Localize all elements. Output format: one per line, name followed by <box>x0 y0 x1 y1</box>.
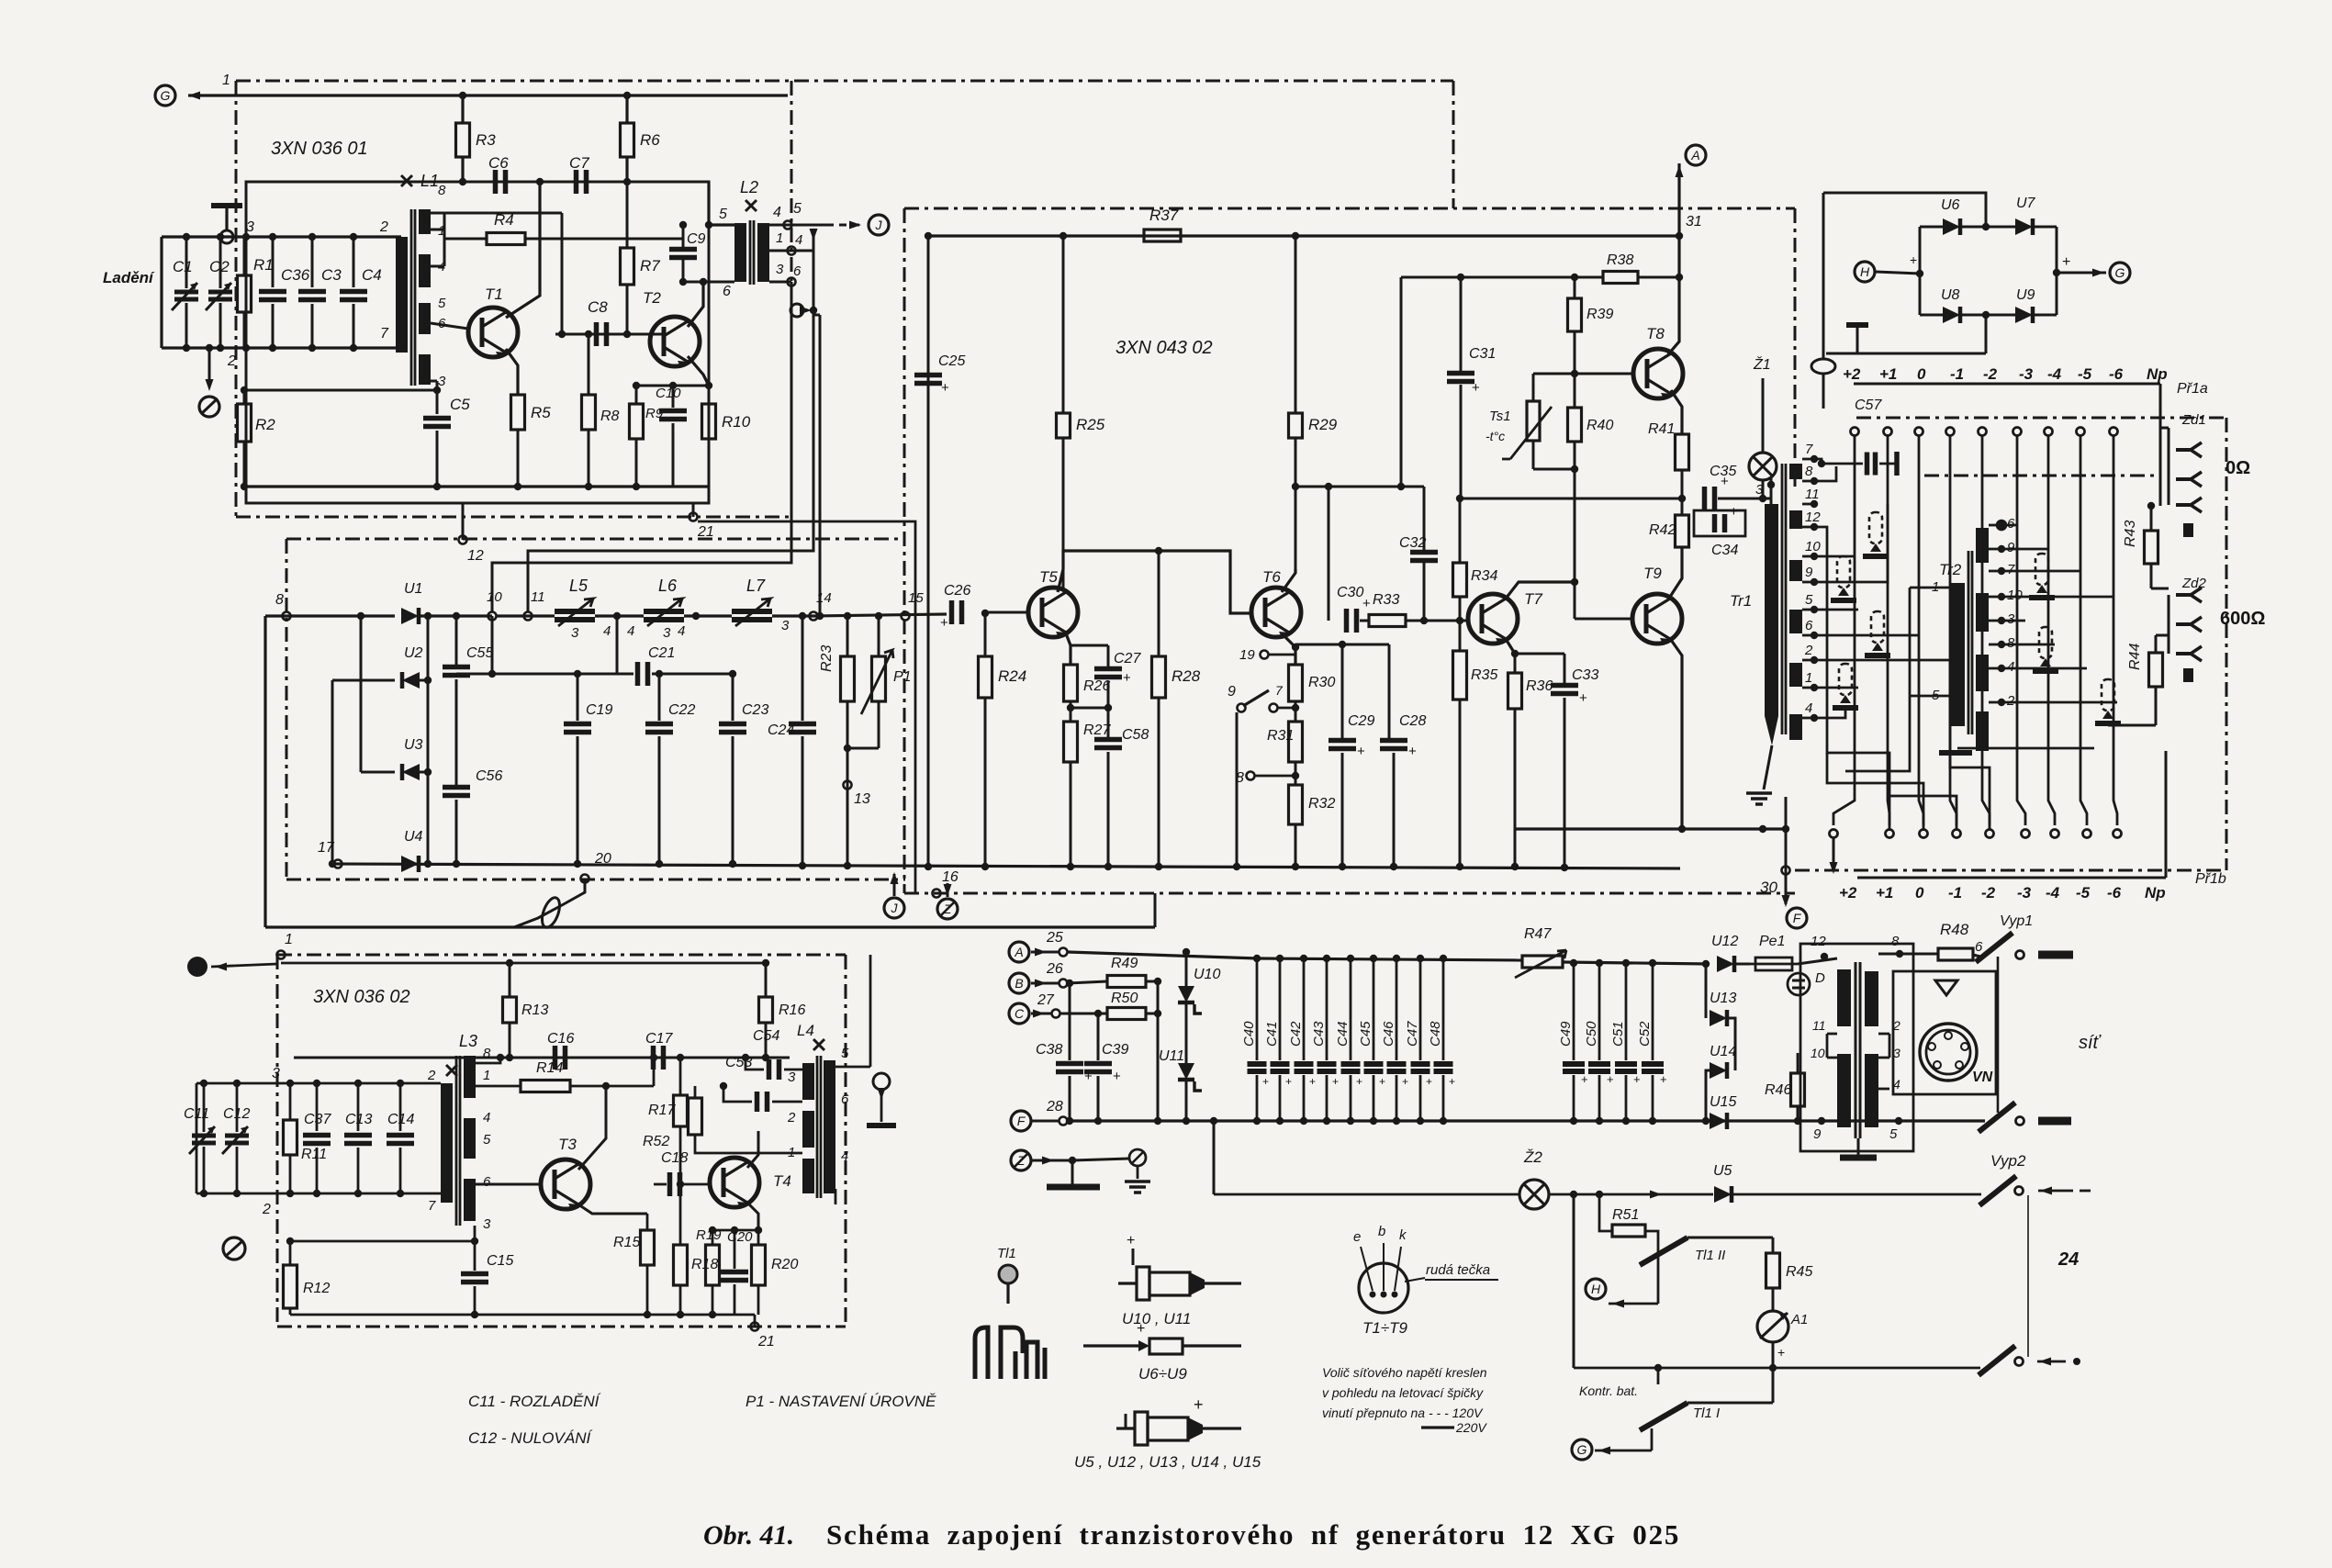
wire U12-Pe1 <box>1734 963 1750 966</box>
svg-text:-6: -6 <box>2109 365 2124 383</box>
resistor R11 <box>284 1120 297 1155</box>
junction <box>981 863 989 870</box>
transformer L3 winding 8-1 <box>464 1056 476 1098</box>
capacitor C38 <box>1056 1064 1093 1085</box>
capacitor C29 <box>1329 741 1365 760</box>
junction <box>1782 825 1789 833</box>
transformer Tr3 core <box>1856 962 1860 1138</box>
wire R14 out <box>570 1085 654 1088</box>
wire C56 bottom <box>455 800 458 864</box>
junction bank bottom <box>1300 1117 1307 1125</box>
svg-text:+: + <box>1137 1321 1145 1337</box>
wire attenuator column <box>2113 436 2117 825</box>
svg-text:+: + <box>1579 690 1587 706</box>
wire collector feed to C32/C30 <box>1295 486 1424 488</box>
wire L7 to node 14 <box>772 614 813 617</box>
svg-text:Ladění: Ladění <box>103 269 155 286</box>
resistor R37 <box>1144 230 1181 241</box>
svg-text:R28: R28 <box>1172 667 1201 685</box>
wire C41 bottom <box>1279 1075 1282 1121</box>
svg-text:6: 6 <box>1975 939 1983 955</box>
svg-text:5: 5 <box>1889 1126 1898 1142</box>
wire tap jog <box>813 314 820 317</box>
junction bank top <box>1417 955 1424 962</box>
wire R3 top <box>461 95 464 123</box>
svg-text:8: 8 <box>483 1046 491 1061</box>
junction node 14 feed <box>816 612 824 620</box>
svg-text:L3: L3 <box>459 1032 477 1050</box>
svg-text:3: 3 <box>2007 611 2015 627</box>
junction <box>799 862 806 869</box>
wire C44 bottom <box>1350 1075 1352 1121</box>
junction <box>1896 950 1903 958</box>
wire C54 feed <box>746 1058 764 1070</box>
svg-text:R25: R25 <box>1076 416 1105 433</box>
wire to L2 pin5 <box>707 182 710 225</box>
switch contact Pr1b <box>1953 830 1961 838</box>
diode U9 <box>2015 307 2033 323</box>
wire pin6 to T1 base <box>431 323 468 329</box>
wire Tr1 pin 1 <box>1802 687 1814 689</box>
svg-text:R34: R34 <box>1471 568 1497 584</box>
wire C4 top <box>353 237 355 287</box>
wire U7 out <box>2033 226 2057 229</box>
transformer Tr2 core <box>1968 551 1972 734</box>
wire Tr1 pin 8 <box>1802 480 1814 483</box>
junction <box>669 382 677 389</box>
svg-text:2: 2 <box>227 353 236 369</box>
wire C12 bottom <box>236 1147 239 1193</box>
capacitor C39 <box>1084 1064 1121 1085</box>
switch Vyp1 contact a <box>2016 951 2024 959</box>
svg-text:Tr2: Tr2 <box>1939 561 1962 578</box>
wire C57 link <box>1879 463 1897 465</box>
screen symbol c <box>1865 611 1890 655</box>
node 3-6 <box>788 278 796 286</box>
node 12 <box>459 536 467 544</box>
wire U3 anode <box>361 771 395 774</box>
wire staircase 1 <box>1827 753 1923 831</box>
wire C47 top <box>1419 958 1422 1060</box>
junction <box>453 612 460 620</box>
svg-text:-2: -2 <box>1983 365 1998 383</box>
wire C29 top <box>1341 644 1344 738</box>
svg-text:F: F <box>1793 911 1802 925</box>
junction Tr1 pin 9 <box>1811 578 1818 586</box>
transformer L1 winding 4 <box>419 254 431 287</box>
wire tuning bottom bus <box>162 346 401 349</box>
junction <box>705 382 712 389</box>
transformer Tr1 secondary winding <box>1789 560 1802 581</box>
svg-text:8: 8 <box>2007 635 2015 651</box>
resistor R10 <box>702 404 716 439</box>
svg-text:4: 4 <box>483 1110 490 1126</box>
zener mark U10 <box>1194 1004 1202 1014</box>
potentiometer P1 arrow <box>861 650 893 714</box>
svg-text:Tl1 I: Tl1 I <box>1693 1406 1720 1421</box>
wire Np to Zd1 <box>2160 427 2169 430</box>
svg-text:R43: R43 <box>2123 521 2138 547</box>
wire T9 emitter down <box>1671 640 1682 829</box>
svg-text:19: 19 <box>1239 647 1255 663</box>
transformer L4 X mark <box>813 1039 824 1050</box>
capacitor C21 <box>638 662 648 686</box>
dashed attenuator bottom boundary <box>1795 869 2226 872</box>
junction <box>679 221 687 229</box>
junction <box>875 612 882 620</box>
svg-text:21: 21 <box>697 524 714 540</box>
wire pin7 to C57 <box>1822 463 1863 465</box>
wire R19 top <box>712 1230 714 1245</box>
terminal Z slash 2 <box>1014 1153 1028 1168</box>
junction <box>1596 1191 1603 1198</box>
wire R44 link <box>2156 634 2169 637</box>
resistor R51 <box>1612 1225 1645 1237</box>
junction bank top <box>1440 955 1447 962</box>
wire lamp Ž1 top <box>1762 378 1765 453</box>
svg-text:10: 10 <box>1811 1046 1825 1060</box>
indicator D <box>1788 973 1810 995</box>
wire C28 bottom <box>1393 753 1396 867</box>
capacitor C57 second plate <box>1894 452 1900 476</box>
earth symbol circle <box>1129 1149 1146 1166</box>
wire attenuator column <box>1888 436 1889 825</box>
arrowhead down <box>206 379 214 391</box>
resistor R19 <box>706 1245 720 1285</box>
junction bank bottom <box>1370 1117 1377 1125</box>
wire to node 21 <box>692 503 695 517</box>
capacitor C47 <box>1411 1064 1430 1071</box>
wire L2 pin6 <box>683 281 734 284</box>
resistor R13 <box>503 997 517 1023</box>
junction <box>397 1080 404 1087</box>
junction <box>1456 617 1463 624</box>
switch contact Pr1a <box>2077 428 2085 436</box>
junction <box>692 612 700 620</box>
wire Z to node 16 <box>947 883 949 897</box>
wire Z2 to U5 <box>1549 1193 1713 1196</box>
dashed filter box bottom <box>286 879 905 881</box>
svg-text:C30: C30 <box>1337 585 1363 600</box>
wire L2 tap 3-6 <box>769 281 791 284</box>
junction <box>1292 863 1299 870</box>
jack above tuning <box>211 206 242 243</box>
junction <box>1654 1364 1662 1372</box>
junction <box>1420 617 1428 624</box>
transformer L1 winding 3 <box>419 354 431 385</box>
arrowhead G <box>1598 1447 1610 1455</box>
switch contact Pr1b <box>2051 830 2059 838</box>
wire pin3 into Tr1 <box>1770 476 1773 504</box>
svg-text:6: 6 <box>793 263 802 279</box>
wire U3 rail <box>360 616 363 772</box>
junction <box>354 1080 362 1087</box>
svg-text:+: + <box>940 615 948 631</box>
wire Z to chassis <box>1071 1160 1074 1184</box>
svg-text:C27: C27 <box>1114 651 1141 666</box>
wire L2 tap to filter node 10 <box>492 282 791 611</box>
wire tuning frame left <box>160 237 163 348</box>
wire pin2 route <box>1814 659 1950 662</box>
resistor R17 <box>674 1095 688 1126</box>
wire pin 11 <box>1827 1033 1837 1036</box>
wire U14-U15 <box>1706 1070 1710 1121</box>
node 11 <box>524 612 533 621</box>
svg-text:U4: U4 <box>404 829 423 845</box>
cable bushing <box>539 895 564 929</box>
svg-text:3: 3 <box>781 618 790 633</box>
svg-text:T1÷T9: T1÷T9 <box>1362 1319 1408 1337</box>
wire output stub <box>813 230 815 251</box>
svg-text:6: 6 <box>841 1092 849 1107</box>
wire Tr2 pin5 <box>1910 695 1951 698</box>
wire output to chassis <box>880 1090 883 1122</box>
resistor R39 <box>1568 298 1582 331</box>
junction bank2 top <box>1622 959 1630 967</box>
wire B to R49 <box>1068 981 1107 983</box>
wire B <box>1031 982 1059 985</box>
arrowhead H <box>1612 1300 1624 1308</box>
junction <box>762 959 769 967</box>
wire C53 feed <box>723 1086 752 1102</box>
svg-text:6: 6 <box>483 1174 491 1190</box>
junction <box>1794 1117 1801 1125</box>
svg-text:U12: U12 <box>1711 934 1738 949</box>
capacitor C4 <box>340 292 367 300</box>
wire pin4 route <box>1814 705 1845 718</box>
arrowhead B <box>1035 980 1047 988</box>
svg-text:R10: R10 <box>722 413 751 431</box>
wire attenuator column <box>2080 436 2087 825</box>
svg-text:0: 0 <box>1917 365 1926 383</box>
svg-text:U13: U13 <box>1710 991 1736 1006</box>
svg-text:Ž1: Ž1 <box>1753 355 1771 373</box>
junction bank2 bottom <box>1622 1117 1630 1125</box>
wire R43 link <box>2151 588 2169 590</box>
svg-text:7: 7 <box>1805 442 1813 457</box>
junction <box>313 1080 320 1087</box>
junction bank2 bottom <box>1649 1117 1656 1125</box>
terminal H (top) <box>1855 262 1875 282</box>
capacitor C5 <box>423 419 451 427</box>
dot out b <box>2073 1358 2080 1365</box>
wire attenuator column <box>1982 436 1990 825</box>
switch Vyp1 pole b <box>1979 1103 2015 1132</box>
wire R1 bottom <box>243 312 246 348</box>
junction <box>1233 863 1240 870</box>
junction <box>286 1080 294 1087</box>
wire C22 bottom <box>658 736 661 864</box>
wire battery left rail <box>1573 1194 1575 1368</box>
wire C3 top <box>311 237 314 287</box>
wire C8 row <box>555 333 662 336</box>
junction <box>433 483 441 490</box>
junction <box>453 860 460 868</box>
svg-text:R32: R32 <box>1308 796 1335 812</box>
wire screen to attenuator <box>1822 374 1825 409</box>
capacitor C44 <box>1341 1064 1361 1071</box>
junction Tr1 pin 5 <box>1811 606 1818 613</box>
wire C2 top <box>219 237 222 288</box>
svg-text:G: G <box>161 88 171 103</box>
jack contact Zd1 <box>2176 442 2202 457</box>
dashed boundary bottom of 3XN 036 02 <box>277 1326 846 1328</box>
wire tuning top bus <box>162 235 401 238</box>
transformer L1 winding 8-1 <box>419 209 431 234</box>
wire R52 bottom link <box>695 1135 802 1153</box>
arrowhead to terminal G1 <box>188 92 200 100</box>
junction <box>1702 1117 1710 1125</box>
junction <box>585 330 592 338</box>
wire T1 emitter <box>506 349 518 395</box>
junction T1 collector node <box>536 178 544 185</box>
junction <box>623 92 631 99</box>
wire C14 bottom <box>399 1148 402 1193</box>
wire R31-R32 <box>1295 762 1297 785</box>
svg-text:R20: R20 <box>771 1257 798 1272</box>
svg-text:2: 2 <box>379 219 388 235</box>
jack stub 2 <box>2183 668 2193 682</box>
junction <box>677 1181 684 1188</box>
resistor R1 <box>238 275 252 312</box>
wire Tr2 pin 8 <box>1989 644 2001 646</box>
junction <box>1982 311 1990 319</box>
svg-text:C12 - NULOVÁNÍ: C12 - NULOVÁNÍ <box>468 1429 592 1447</box>
svg-text:T2: T2 <box>643 289 661 307</box>
svg-text:+: + <box>1123 670 1131 686</box>
junction <box>514 483 521 490</box>
transistor T7 <box>1468 594 1518 645</box>
wire F stub <box>1032 1120 1059 1123</box>
svg-text:+: + <box>1127 1233 1135 1249</box>
resistor R40 <box>1568 408 1582 442</box>
wire Tl1II to R45 <box>1687 1237 1773 1239</box>
capacitor C34 box <box>1694 510 1745 536</box>
wire pin1 out <box>476 1085 500 1088</box>
switch contact Pr1b <box>2022 830 2030 838</box>
junction <box>574 860 581 868</box>
wire L2 tap to filter node 11 <box>528 251 813 611</box>
wire C36 bottom <box>272 304 275 348</box>
svg-text:C52: C52 <box>1637 1021 1653 1047</box>
wire emitter feed right <box>1295 644 1389 646</box>
svg-text:6: 6 <box>723 284 731 299</box>
junction tap <box>810 307 817 314</box>
capacitor C56 <box>443 788 470 796</box>
wire C1 top <box>185 237 188 288</box>
screen symbol d <box>1833 664 1858 708</box>
wire C24 top <box>802 616 804 721</box>
junction <box>424 612 432 620</box>
wire C41 top <box>1279 958 1282 1060</box>
dashed boundary top of 3XN 036 02 <box>277 954 846 957</box>
junction <box>233 1190 241 1197</box>
wire row <box>456 673 492 676</box>
potentiometer P1 <box>872 656 886 701</box>
wire U5 to Vyp2 <box>1732 1193 1981 1196</box>
svg-text:9: 9 <box>1813 1126 1822 1142</box>
resistor R26 <box>1064 665 1078 701</box>
junction <box>241 483 248 490</box>
svg-text:C1: C1 <box>173 258 193 275</box>
junction <box>459 178 466 185</box>
wire A1 bottom <box>1772 1342 1775 1368</box>
wire T6 collector <box>1282 569 1295 592</box>
wire pin5 route <box>1814 609 1858 611</box>
wire C52 bottom <box>1652 1075 1654 1121</box>
svg-text:U15: U15 <box>1710 1094 1736 1110</box>
wire R28 bottom <box>1158 698 1160 867</box>
transformer L4 winding b <box>802 1111 814 1148</box>
wire R44 bottom <box>2155 687 2158 725</box>
wire C12 top <box>236 1083 239 1132</box>
svg-text:8: 8 <box>1805 464 1813 479</box>
svg-text:R41: R41 <box>1648 421 1675 437</box>
terminal H (battery) <box>1586 1279 1606 1299</box>
junction <box>329 860 336 868</box>
wire to node 12 <box>462 503 465 540</box>
push button Tl1 pictorial <box>975 1265 1045 1379</box>
junction Tr1 pin 8 <box>1811 477 1818 485</box>
transformer L1 X mark <box>401 175 412 186</box>
svg-text:R42: R42 <box>1649 522 1676 538</box>
node 21 lower <box>751 1323 759 1331</box>
junction <box>1676 274 1683 281</box>
transistor T5 <box>1028 588 1078 639</box>
resistor R3 <box>456 123 470 157</box>
svg-text:e: e <box>1353 1229 1361 1245</box>
svg-text:C11 - ROZLADĚNÍ: C11 - ROZLADĚNÍ <box>468 1393 601 1410</box>
svg-text:-4: -4 <box>2047 365 2062 383</box>
svg-text:+: + <box>1607 1072 1614 1086</box>
switch contact Pr1a <box>2110 428 2118 436</box>
svg-text:5: 5 <box>1805 592 1813 608</box>
switch contact Pr1a <box>2045 428 2053 436</box>
svg-text:3: 3 <box>663 625 671 641</box>
inductor L5 winding lower <box>555 617 595 622</box>
resistor R44 <box>2149 653 2163 687</box>
wire pin12 route <box>1814 527 1889 831</box>
svg-text:11: 11 <box>531 589 545 605</box>
wire to U6 <box>1920 226 1943 229</box>
junction <box>433 386 441 394</box>
wire G rail <box>1651 1428 1654 1450</box>
wire Tr3 core ground <box>1857 1138 1860 1155</box>
transistor T1 <box>468 308 518 359</box>
junction <box>602 1082 610 1090</box>
wire R8 bottom <box>588 430 590 487</box>
wire C32 bottom <box>1423 562 1426 621</box>
svg-text:C45: C45 <box>1358 1021 1373 1047</box>
junction <box>200 1190 207 1197</box>
wire R12 bottom <box>289 1308 292 1315</box>
switch contact Pr1a <box>2013 428 2022 436</box>
wire pin 2 <box>1878 1033 1889 1036</box>
dashed boundary drop to amplifier box <box>1452 81 1455 208</box>
junction <box>308 344 316 352</box>
wire C43 top <box>1326 958 1329 1060</box>
svg-text:220V: 220V <box>1455 1420 1487 1435</box>
svg-text:-5: -5 <box>2076 884 2091 902</box>
svg-text:3: 3 <box>776 262 784 277</box>
junction <box>1292 704 1299 711</box>
dashed boundary top <box>236 80 1453 83</box>
jack contact Zd2 <box>2176 588 2202 602</box>
svg-text:U6÷U9: U6÷U9 <box>1138 1365 1187 1383</box>
transformer L4 core <box>817 1056 821 1198</box>
junction <box>233 1080 241 1087</box>
terminal F (attenuator) <box>1787 908 1807 928</box>
